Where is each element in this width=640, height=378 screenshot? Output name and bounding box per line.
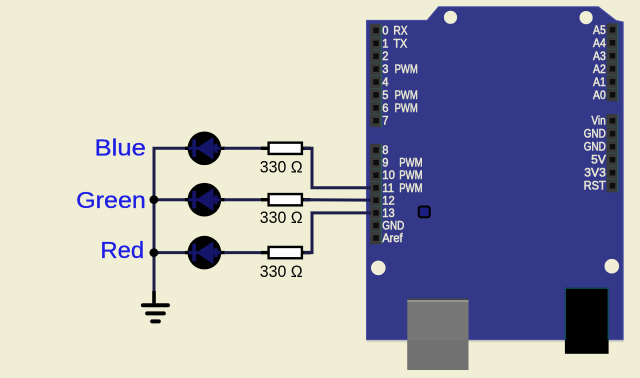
pin labels right bbox=[584, 25, 607, 193]
wire R1 to pin 11 bbox=[304, 148, 371, 188]
svg-text:RX: RX bbox=[393, 25, 407, 37]
svg-text:GND: GND bbox=[584, 129, 606, 141]
svg-text:Vin: Vin bbox=[591, 116, 605, 128]
svg-text:PWM: PWM bbox=[395, 103, 418, 115]
svg-text:3: 3 bbox=[382, 64, 388, 76]
svg-text:9: 9 bbox=[382, 158, 388, 170]
svg-text:330 Ω: 330 Ω bbox=[260, 159, 303, 177]
svg-text:PWM: PWM bbox=[395, 90, 418, 102]
resistor R1 330 ohm bbox=[224, 143, 311, 177]
svg-text:2: 2 bbox=[382, 51, 388, 63]
mounting hole bottom-right bbox=[605, 259, 620, 274]
svg-text:PWM: PWM bbox=[399, 158, 422, 170]
onboard LED 13 bbox=[419, 207, 430, 218]
svg-text:PWM: PWM bbox=[395, 64, 418, 76]
svg-text:8: 8 bbox=[382, 145, 388, 157]
svg-text:GND: GND bbox=[584, 142, 606, 154]
svg-text:TX: TX bbox=[393, 38, 407, 50]
mounting hole top-left bbox=[444, 11, 457, 24]
wire red row to bus bbox=[154, 251, 191, 254]
LED D3 red bbox=[185, 236, 225, 270]
svg-text:10: 10 bbox=[382, 170, 395, 182]
svg-text:RST: RST bbox=[584, 181, 606, 193]
svg-text:A0: A0 bbox=[593, 90, 606, 102]
svg-text:PWM: PWM bbox=[399, 170, 422, 182]
wire R3 to pin 13 bbox=[304, 213, 371, 253]
svg-text:A4: A4 bbox=[593, 38, 606, 50]
power jack J1 bbox=[565, 288, 609, 354]
svg-text:A5: A5 bbox=[593, 25, 606, 37]
svg-text:A1: A1 bbox=[593, 77, 606, 89]
svg-text:11: 11 bbox=[382, 183, 394, 195]
header strip pins 8-Aref bbox=[370, 144, 382, 245]
LED D2 green bbox=[185, 183, 225, 217]
mounting hole top-right bbox=[580, 11, 593, 24]
wire green row to bus bbox=[154, 198, 191, 201]
header strip digital pins 0-7 bbox=[370, 24, 382, 127]
svg-text:6: 6 bbox=[382, 103, 388, 115]
svg-text:13: 13 bbox=[382, 208, 394, 220]
resistor R3 330 ohm bbox=[224, 247, 311, 281]
svg-text:1: 1 bbox=[382, 38, 388, 50]
svg-text:3V3: 3V3 bbox=[584, 168, 606, 180]
pin labels left bbox=[382, 25, 422, 245]
mounting hole bottom-left bbox=[371, 261, 386, 276]
USB connector bbox=[407, 299, 468, 371]
svg-text:PWM: PWM bbox=[399, 183, 422, 195]
svg-text:GND: GND bbox=[382, 221, 404, 233]
junction green row bbox=[150, 195, 159, 204]
svg-text:7: 7 bbox=[382, 116, 388, 128]
svg-text:5V: 5V bbox=[591, 155, 606, 167]
Arduino board U1 body bbox=[367, 7, 625, 342]
wire R2 to pin 12 bbox=[304, 198, 371, 201]
svg-text:0: 0 bbox=[382, 25, 388, 37]
svg-text:12: 12 bbox=[382, 195, 394, 207]
svg-text:4: 4 bbox=[382, 77, 389, 89]
svg-text:Red: Red bbox=[100, 237, 144, 263]
wire ground bus bbox=[154, 148, 190, 304]
svg-text:Green: Green bbox=[76, 187, 146, 213]
svg-text:A3: A3 bbox=[593, 51, 606, 63]
header strip power Vin-RST bbox=[607, 114, 619, 192]
svg-text:5: 5 bbox=[382, 90, 388, 102]
junction red row bbox=[150, 248, 159, 257]
header strip analog A5-A0 bbox=[607, 23, 619, 101]
svg-text:330 Ω: 330 Ω bbox=[260, 263, 303, 281]
LED D1 blue bbox=[185, 132, 225, 166]
svg-text:Aref: Aref bbox=[382, 233, 403, 245]
svg-text:Blue: Blue bbox=[95, 134, 146, 160]
resistor R2 330 ohm bbox=[224, 194, 311, 227]
ground bbox=[143, 291, 168, 321]
svg-text:A2: A2 bbox=[593, 64, 606, 76]
svg-text:330 Ω: 330 Ω bbox=[260, 209, 303, 227]
